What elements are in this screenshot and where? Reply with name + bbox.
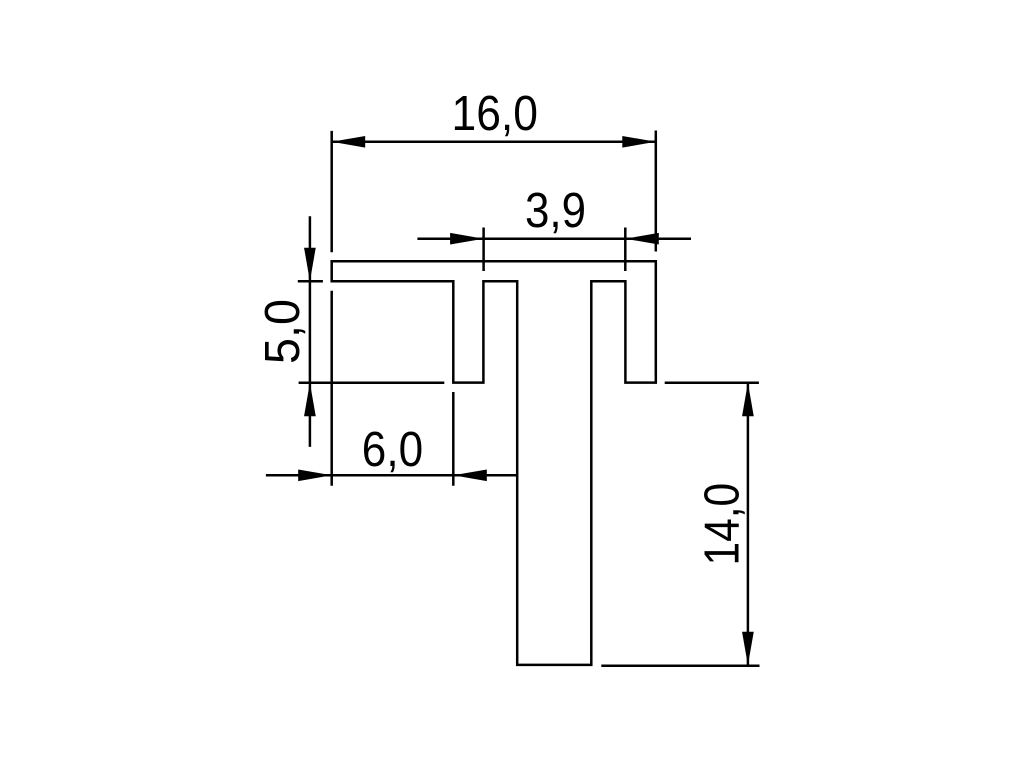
svg-text:5,0: 5,0	[256, 299, 310, 364]
svg-text:3,9: 3,9	[525, 184, 586, 238]
svg-text:14,0: 14,0	[696, 483, 750, 566]
svg-text:16,0: 16,0	[452, 87, 539, 141]
svg-text:6,0: 6,0	[362, 423, 423, 477]
